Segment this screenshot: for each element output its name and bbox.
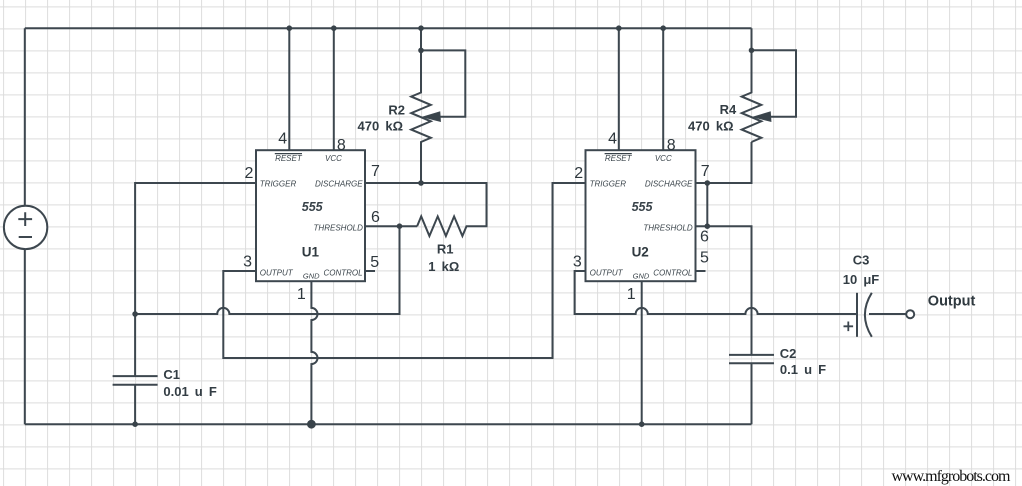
wire: U1 pin 4 stub [288, 28, 290, 150]
svg-text:470 kΩ: 470 kΩ [688, 119, 733, 134]
svg-text:5: 5 [700, 250, 709, 267]
node: rail-R2 [418, 25, 424, 31]
output terminal circle [906, 310, 914, 318]
wire: U2 control pin 5 stub [696, 270, 706, 272]
node: rail-pin8 U1 [331, 25, 337, 31]
svg-text:CONTROL: CONTROL [323, 268, 362, 277]
R4 wiper arrowhead [754, 112, 771, 122]
op-amp-box: 555 timer U1 body [256, 150, 365, 281]
wire: left rail upper (source to top rail) [24, 28, 26, 206]
voltage source V1 [4, 206, 47, 249]
svg-text:3: 3 [573, 254, 582, 271]
C3 plus sign [844, 322, 854, 332]
resistor R2 470k vertical with leads [411, 28, 431, 183]
svg-text:OUTPUT: OUTPUT [260, 268, 294, 277]
svg-text:THRESHOLD: THRESHOLD [314, 223, 364, 232]
wire: U2 gnd drop [641, 281, 643, 424]
svg-text:1: 1 [627, 286, 636, 303]
svg-text:C3: C3 [853, 253, 870, 268]
wire: trigger-threshold link horizontal (hops over output drop) [135, 226, 399, 314]
RESET overline U1 [275, 153, 302, 155]
wire: U1 pin 8 stub [333, 28, 335, 150]
svg-text:RESET: RESET [605, 154, 633, 163]
svg-text:4: 4 [608, 131, 617, 148]
svg-text:R1: R1 [437, 242, 454, 257]
wire: U1 trigger wire left [135, 183, 256, 314]
svg-text:CONTROL: CONTROL [653, 268, 692, 277]
wire: left rail lower (source to bottom rail) [24, 249, 26, 424]
svg-text:0.1 u F: 0.1 u F [780, 362, 826, 377]
wire: U1 threshold stub [365, 225, 417, 227]
svg-text:DISCHARGE: DISCHARGE [645, 179, 693, 188]
wire: U1 output stub and drop [223, 183, 585, 358]
svg-text:VCC: VCC [325, 154, 342, 163]
svg-text:3: 3 [243, 254, 252, 271]
op-amp-box: 555 timer U2 body [586, 150, 696, 281]
node: U2 gnd-ground rail [639, 421, 645, 427]
svg-text:6: 6 [700, 229, 709, 246]
node: C1-ground rail [132, 421, 138, 427]
svg-text:0.01 u F: 0.01 u F [163, 384, 216, 399]
node: R2 wiper tie [418, 48, 424, 54]
capacitor C3 polarized plates [856, 293, 858, 337]
wire: U1 control pin 5 stub [365, 270, 375, 272]
svg-text:8: 8 [337, 137, 346, 154]
svg-text:2: 2 [574, 165, 583, 182]
node: U2 discharge junction [705, 180, 711, 186]
wire: R4 wiper loop [752, 50, 797, 117]
U2 texts [573, 131, 710, 304]
svg-text:U1: U1 [302, 245, 320, 260]
wire: U2 discharge-threshold link vertical [706, 183, 708, 226]
svg-text:OUTPUT: OUTPUT [590, 268, 624, 277]
svg-text:C1: C1 [163, 367, 180, 382]
svg-text:470 kΩ: 470 kΩ [358, 119, 403, 134]
wire: top VCC rail [25, 27, 752, 29]
R2 wiper arrowhead [423, 112, 440, 122]
svg-text:R4: R4 [720, 102, 737, 117]
svg-text:10 μF: 10 μF [843, 272, 880, 287]
svg-text:C2: C2 [780, 346, 797, 361]
svg-text:555: 555 [632, 200, 654, 214]
svg-text:555: 555 [302, 200, 324, 214]
node: rail-pin8 U2 [660, 25, 666, 31]
node: trigger-C1 junction [132, 311, 138, 317]
node: U2 threshold junction [705, 223, 711, 229]
svg-text:7: 7 [371, 163, 380, 180]
svg-text:GND: GND [303, 272, 320, 281]
node: U1 gnd-ground rail (large) [307, 420, 316, 429]
RESET overline U2 [605, 153, 632, 155]
svg-text:Output: Output [928, 293, 976, 309]
svg-text:6: 6 [371, 209, 380, 226]
wire: C3 to output terminal [869, 313, 906, 315]
svg-text:GND: GND [633, 272, 650, 281]
svg-text:VCC: VCC [655, 154, 672, 163]
node: rail-pin4 U1 [287, 25, 293, 31]
node: rail-pin4 U2 [616, 25, 622, 31]
wire: R2 wiper loop [421, 50, 465, 116]
wire: U1 gnd drop with hops [311, 281, 317, 424]
svg-text:DISCHARGE: DISCHARGE [315, 179, 363, 188]
svg-text:RESET: RESET [275, 154, 303, 163]
svg-text:5: 5 [370, 254, 379, 271]
svg-text:TRIGGER: TRIGGER [590, 179, 627, 188]
svg-text:U2: U2 [632, 245, 649, 260]
node: R4 wiper tie [749, 48, 755, 54]
wire: bottom ground rail [25, 423, 752, 425]
svg-text:R2: R2 [388, 102, 405, 117]
svg-text:1 kΩ: 1 kΩ [428, 259, 459, 274]
capacitor C1 [113, 314, 158, 424]
node: R2-discharge U1 [418, 180, 424, 186]
capacitor C2 [729, 355, 774, 424]
resistor R4 470k vertical with leads [742, 28, 762, 142]
svg-text:TRIGGER: TRIGGER [260, 179, 297, 188]
wire: U2 threshold right to C2 drop [696, 226, 752, 355]
U1 texts [243, 131, 380, 304]
node: U1 threshold junction [397, 223, 403, 229]
svg-text:1: 1 [297, 286, 306, 303]
svg-text:8: 8 [667, 137, 676, 154]
wire: U2 pin 8 stub [662, 28, 664, 150]
svg-text:THRESHOLD: THRESHOLD [643, 223, 693, 232]
svg-text:4: 4 [278, 131, 287, 148]
svg-text:7: 7 [701, 163, 710, 180]
svg-text:www.mfgrobots.com: www.mfgrobots.com [892, 468, 1012, 485]
wire: U2 output run to C3 (hops over gnd and C2 verticals) [575, 271, 857, 314]
resistor R1 1k zigzag [365, 183, 487, 236]
wire: U2 discharge to R4 [696, 142, 752, 183]
wire: U2 pin 4 stub [618, 28, 620, 150]
svg-text:2: 2 [244, 165, 253, 182]
